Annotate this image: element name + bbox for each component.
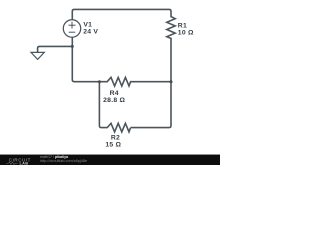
svg-text:15 Ω: 15 Ω (105, 141, 121, 148)
svg-text:24 V: 24 V (83, 29, 98, 36)
svg-text:R1: R1 (178, 22, 187, 29)
svg-text:http://circuitlab.com/c6pj48e: http://circuitlab.com/c6pj48e (40, 159, 87, 163)
svg-text:V1: V1 (83, 21, 92, 28)
svg-text:28.8 Ω: 28.8 Ω (103, 97, 125, 104)
svg-text:10 Ω: 10 Ω (178, 30, 194, 37)
svg-text:R2: R2 (111, 134, 120, 141)
svg-text:LAB: LAB (20, 161, 29, 166)
